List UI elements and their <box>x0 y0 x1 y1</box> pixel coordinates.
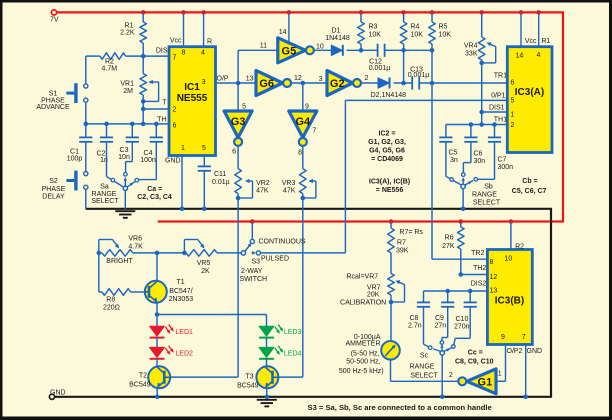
svg-text:C7: C7 <box>498 157 507 164</box>
svg-text:G2: G2 <box>330 78 345 90</box>
svg-text:IC2 =: IC2 = <box>379 131 396 138</box>
svg-text:7: 7 <box>522 334 526 341</box>
svg-text:TH2: TH2 <box>473 265 486 272</box>
svg-text:IC3(A): IC3(A) <box>515 87 544 98</box>
svg-text:BRIGHT: BRIGHT <box>106 258 133 265</box>
svg-text:R4: R4 <box>411 24 420 31</box>
svg-text:Sc: Sc <box>420 353 429 360</box>
svg-text:DIS1: DIS1 <box>489 105 505 112</box>
svg-text:GND: GND <box>50 390 66 397</box>
svg-text:VR1: VR1 <box>120 81 134 88</box>
svg-text:2.2K: 2.2K <box>120 30 135 37</box>
svg-text:10K: 10K <box>369 32 382 39</box>
svg-text:3: 3 <box>319 76 323 83</box>
svg-text:DIS2: DIS2 <box>471 280 487 287</box>
svg-text:3n: 3n <box>450 157 458 164</box>
svg-text:LED2: LED2 <box>175 351 193 358</box>
svg-text:TH1: TH1 <box>494 117 507 124</box>
svg-text:5: 5 <box>202 145 206 152</box>
svg-text:R5: R5 <box>439 24 448 31</box>
svg-text:G4, G5, G6: G4, G5, G6 <box>369 148 405 155</box>
svg-text:9: 9 <box>305 103 309 110</box>
svg-text:9: 9 <box>501 334 505 341</box>
svg-text:2.7n: 2.7n <box>408 323 422 330</box>
svg-text:R8: R8 <box>106 297 115 304</box>
svg-text:D2,1N4148: D2,1N4148 <box>371 92 407 99</box>
svg-text:IC3(B): IC3(B) <box>495 296 524 307</box>
svg-text:6: 6 <box>173 123 177 130</box>
svg-text:30n: 30n <box>474 158 486 165</box>
svg-text:G6: G6 <box>259 78 274 90</box>
svg-text:RANGE: RANGE <box>472 191 497 198</box>
svg-text:PULSED: PULSED <box>261 256 289 263</box>
svg-text:R7= Rs: R7= Rs <box>399 229 423 236</box>
svg-text:100n: 100n <box>140 157 156 164</box>
svg-text:1N4148: 1N4148 <box>325 35 350 42</box>
svg-text:100p: 100p <box>67 156 83 163</box>
svg-text:7: 7 <box>173 55 177 62</box>
svg-text:10K: 10K <box>439 32 452 39</box>
svg-text:= CD4069: = CD4069 <box>371 156 403 163</box>
svg-text:14: 14 <box>516 53 524 60</box>
svg-text:220Ω: 220Ω <box>103 305 120 312</box>
svg-text:20K: 20K <box>367 292 380 299</box>
svg-text:TR2: TR2 <box>471 250 484 257</box>
svg-text:27K: 27K <box>442 243 455 250</box>
svg-text:C11: C11 <box>214 171 226 178</box>
svg-text:G3: G3 <box>231 116 246 128</box>
svg-text:C5: C5 <box>449 150 458 157</box>
svg-text:50-500 Hz,: 50-500 Hz, <box>346 359 380 366</box>
svg-text:7: 7 <box>312 128 316 135</box>
svg-text:SELECT: SELECT <box>410 372 438 379</box>
svg-text:C8, C9, C10: C8, C9, C10 <box>455 359 494 366</box>
svg-text:T3: T3 <box>245 374 253 381</box>
svg-text:LED1: LED1 <box>175 329 193 336</box>
svg-text:1: 1 <box>181 145 185 152</box>
svg-text:TH: TH <box>157 117 166 124</box>
svg-text:C1: C1 <box>70 149 79 156</box>
svg-text:0/P1: 0/P1 <box>491 93 506 100</box>
svg-text:14: 14 <box>279 29 287 36</box>
svg-text:C6: C6 <box>474 151 483 158</box>
svg-text:IC1: IC1 <box>184 82 200 93</box>
svg-text:Ca =: Ca = <box>147 186 162 193</box>
svg-text:12: 12 <box>294 75 302 82</box>
svg-text:VR2: VR2 <box>256 180 270 187</box>
svg-text:= NE556: = NE556 <box>376 187 404 194</box>
svg-text:3: 3 <box>202 79 206 86</box>
svg-text:R3: R3 <box>369 24 378 31</box>
svg-text:11: 11 <box>260 43 267 50</box>
svg-text:270n: 270n <box>454 324 470 331</box>
svg-text:2: 2 <box>449 372 453 379</box>
svg-text:DELAY: DELAY <box>42 194 65 201</box>
svg-text:4: 4 <box>537 52 541 59</box>
svg-text:C3: C3 <box>120 147 129 154</box>
svg-text:1: 1 <box>511 112 515 119</box>
svg-text:TR1: TR1 <box>494 73 507 80</box>
svg-text:T: T <box>162 100 167 107</box>
svg-text:13: 13 <box>246 76 254 83</box>
svg-text:Rcal=VR7: Rcal=VR7 <box>346 273 378 280</box>
svg-text:C5, C6, C7: C5, C6, C7 <box>512 188 547 195</box>
svg-text:ADVANCE: ADVANCE <box>36 104 70 111</box>
svg-text:8: 8 <box>298 150 302 157</box>
svg-text:4: 4 <box>201 50 205 57</box>
svg-text:AMMETER: AMMETER <box>346 341 381 348</box>
svg-text:SELECT: SELECT <box>473 199 501 206</box>
svg-text:1: 1 <box>498 371 502 378</box>
svg-text:G1: G1 <box>478 376 493 388</box>
svg-text:BC549: BC549 <box>237 383 259 390</box>
svg-text:8: 8 <box>490 259 494 266</box>
svg-text:0.001µ: 0.001µ <box>369 65 391 72</box>
svg-text:7V: 7V <box>50 17 59 24</box>
svg-text:2M: 2M <box>123 88 133 95</box>
svg-text:10: 10 <box>316 44 324 51</box>
svg-text:Sa: Sa <box>100 183 109 190</box>
svg-text:2K: 2K <box>201 268 210 275</box>
svg-text:BC547/: BC547/ <box>169 288 192 295</box>
svg-text:R6: R6 <box>445 235 454 242</box>
svg-text:G1, G2, G3,: G1, G2, G3, <box>368 139 406 146</box>
svg-text:R2: R2 <box>105 59 114 66</box>
svg-text:O/P: O/P <box>217 76 229 83</box>
svg-text:27n: 27n <box>435 323 447 330</box>
svg-text:C4: C4 <box>144 150 153 157</box>
svg-text:C8: C8 <box>410 315 419 322</box>
svg-text:47K: 47K <box>283 187 296 194</box>
svg-text:R2: R2 <box>515 244 524 251</box>
svg-text:IC3(A), IC(B): IC3(A), IC(B) <box>369 179 410 186</box>
svg-text:PHASE: PHASE <box>42 186 66 193</box>
svg-text:6: 6 <box>511 80 515 87</box>
svg-text:Cc =: Cc = <box>468 350 483 357</box>
svg-text:R1: R1 <box>542 38 551 45</box>
svg-text:SWITCH: SWITCH <box>240 276 268 283</box>
svg-text:47K: 47K <box>256 187 269 194</box>
svg-text:300n: 300n <box>498 164 514 171</box>
svg-text:CALIBRATION: CALIBRATION <box>340 300 386 307</box>
svg-text:39K: 39K <box>396 248 409 255</box>
svg-text:Cb =: Cb = <box>522 178 537 185</box>
svg-text:2: 2 <box>365 75 369 82</box>
svg-text:LED3: LED3 <box>284 329 302 336</box>
svg-text:5: 5 <box>511 98 515 105</box>
svg-text:C9: C9 <box>435 315 444 322</box>
svg-text:4.7K: 4.7K <box>128 243 143 250</box>
svg-text:2: 2 <box>511 122 515 129</box>
svg-text:13: 13 <box>490 287 498 294</box>
svg-text:GND: GND <box>527 348 543 355</box>
svg-text:BC549: BC549 <box>129 382 151 389</box>
svg-text:GND: GND <box>165 158 181 165</box>
svg-text:CONTINUOUS: CONTINUOUS <box>259 239 306 246</box>
svg-text:S3: S3 <box>252 259 261 266</box>
svg-text:C2, C3, C4: C2, C3, C4 <box>137 194 172 201</box>
svg-text:VR3: VR3 <box>282 180 296 187</box>
svg-text:NE555: NE555 <box>177 93 208 104</box>
svg-text:0.001µ: 0.001µ <box>408 72 430 79</box>
svg-text:Vcc: Vcc <box>170 38 182 45</box>
svg-text:T2: T2 <box>139 373 147 380</box>
svg-text:5: 5 <box>242 103 246 110</box>
svg-text:O/P2: O/P2 <box>507 348 523 355</box>
svg-text:Vcc: Vcc <box>525 38 537 45</box>
svg-text:10n: 10n <box>118 154 130 161</box>
svg-text:500 Hz-5 kHz): 500 Hz-5 kHz) <box>339 368 384 375</box>
svg-text:T1: T1 <box>177 279 185 286</box>
svg-text:G5: G5 <box>282 45 297 57</box>
svg-text:33K: 33K <box>465 51 478 58</box>
svg-text:8: 8 <box>182 50 186 57</box>
svg-text:4.7M: 4.7M <box>102 66 118 73</box>
svg-text:10K: 10K <box>411 32 424 39</box>
svg-text:DIS: DIS <box>156 48 168 55</box>
svg-text:LED4: LED4 <box>284 351 302 358</box>
svg-text:VR5: VR5 <box>197 260 211 267</box>
svg-text:D1: D1 <box>332 28 341 35</box>
svg-text:(5-50 Hz,: (5-50 Hz, <box>351 351 380 358</box>
svg-text:C10: C10 <box>456 316 469 323</box>
svg-text:RANGE: RANGE <box>410 363 435 370</box>
svg-text:SELECT: SELECT <box>91 198 119 205</box>
svg-text:S3 = Sa, Sb, Sc are connected: S3 = Sa, Sb, Sc are connected to a commo… <box>308 403 492 412</box>
svg-text:S2: S2 <box>49 178 58 185</box>
svg-text:VR6: VR6 <box>128 236 142 243</box>
svg-text:Sb: Sb <box>484 183 493 190</box>
svg-text:R: R <box>207 39 212 46</box>
svg-text:VR7: VR7 <box>367 285 381 292</box>
svg-text:R1: R1 <box>125 23 134 30</box>
svg-text:G4: G4 <box>295 116 311 128</box>
svg-text:2N3053: 2N3053 <box>169 296 194 303</box>
svg-text:0.01µ: 0.01µ <box>212 179 230 186</box>
svg-text:RANGE: RANGE <box>92 191 117 198</box>
svg-text:R7: R7 <box>397 240 406 247</box>
svg-text:2: 2 <box>173 107 177 114</box>
svg-text:VR4: VR4 <box>464 43 478 50</box>
svg-text:10: 10 <box>505 255 513 262</box>
svg-text:6: 6 <box>232 149 236 156</box>
svg-text:2-WAY: 2-WAY <box>241 268 263 275</box>
svg-text:12: 12 <box>490 274 498 281</box>
